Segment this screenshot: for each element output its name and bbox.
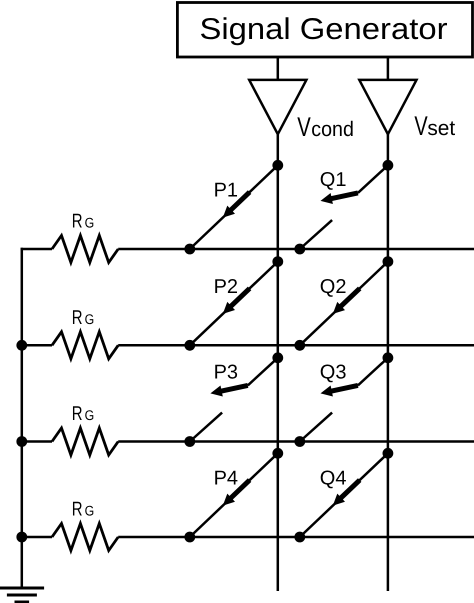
svg-text:V: V [297,112,311,142]
svg-text:P3: P3 [214,362,238,384]
svg-text:P4: P4 [214,468,238,490]
switch Q4 [294,448,393,542]
switch P3 [184,352,283,447]
svg-text:R: R [72,499,83,521]
switch Q3 [294,352,393,447]
svg-text:Q2: Q2 [320,276,347,298]
junction: ground bus / row 3 [16,436,27,447]
svg-text:P2: P2 [214,276,238,298]
wire: Vset column (node Vset) [387,134,390,591]
svg-text:G: G [85,407,95,423]
resistor R4 (RG) [52,499,118,551]
svg-text:set: set [427,117,455,140]
ground [0,588,44,602]
resistor R2 (RG) [52,307,118,359]
svg-text:Q1: Q1 [320,169,347,191]
resistor R1 (RG) [52,211,118,263]
svg-text:Q3: Q3 [320,362,347,384]
switch P1 [184,160,283,255]
svg-text:Q4: Q4 [320,468,347,490]
wire: row 3 (from RG to right edge) [21,440,474,443]
wire: row 2 (from RG to right edge) [21,344,474,347]
wire: row 1 (from RG to right edge) [21,248,474,251]
wire: ground bus (left vertical) [21,248,24,588]
switch Q2 [294,256,393,350]
wire: box output to Vcond buffer input [277,57,280,81]
switch Q1 [294,160,393,255]
label Vset [414,111,455,141]
switch P2 [184,256,283,350]
svg-text:V: V [414,111,427,141]
svg-text:G: G [85,503,95,519]
svg-text:cond: cond [311,118,354,141]
signal generator box [177,3,472,58]
junction: ground bus / row 4 [16,532,27,543]
svg-text:R: R [72,403,83,425]
junction: ground bus / row 2 [16,340,27,351]
label Vcond [297,112,354,142]
wire: Vcond column (node Vcond) [277,134,280,591]
svg-text:P1: P1 [214,180,238,202]
svg-text:G: G [85,215,95,231]
svg-text:R: R [72,211,83,233]
resistor R3 (RG) [52,403,118,455]
svg-text:R: R [72,307,83,329]
svg-text:Signal Generator: Signal Generator [200,13,448,46]
wire: box output to Vset buffer input [387,57,390,81]
buffer amplifier U1 (Vcond driver) [249,80,306,134]
switch P4 [184,448,283,542]
svg-text:G: G [85,311,95,327]
buffer amplifier U2 (Vset driver) [359,80,416,134]
wire: row 4 (from RG to right edge) [21,536,474,539]
